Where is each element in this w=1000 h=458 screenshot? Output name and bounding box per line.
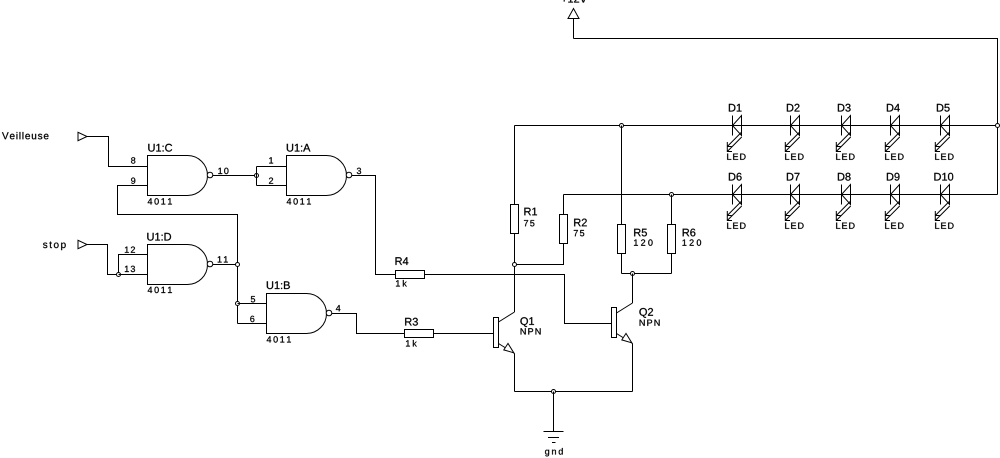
pin 5 label bbox=[251, 296, 255, 302]
pin 9 label bbox=[131, 178, 135, 184]
resistor R6 bbox=[668, 225, 676, 254]
wire Q2 collector bbox=[632, 274, 634, 304]
LED D2 bbox=[785, 116, 799, 152]
value NPN of Q1 bbox=[521, 328, 541, 334]
node Q2 collector junction bbox=[631, 272, 635, 276]
LED D5 bbox=[935, 116, 949, 152]
wire LED row 2 down to R2 bbox=[563, 195, 565, 216]
wire pin 12 and tie down to pin 13 bbox=[119, 255, 148, 275]
LED D4 bbox=[885, 116, 899, 152]
wire Veilleuse to U1:C pin 8 bbox=[87, 137, 148, 167]
pin 3 label bbox=[357, 168, 361, 174]
label D2 bbox=[787, 104, 800, 112]
node ground junction bbox=[552, 390, 556, 394]
node R5 top junction bbox=[620, 124, 624, 128]
node U1:A input tie junction bbox=[255, 174, 259, 178]
wire LED row 2 down to R6 bbox=[671, 195, 673, 226]
value 75 of R2 bbox=[574, 230, 584, 236]
resistor R5 bbox=[618, 225, 626, 254]
value label LED of D5 bbox=[935, 154, 953, 160]
LED D8 bbox=[836, 185, 850, 221]
value label 4011 of U1:A bbox=[287, 198, 311, 204]
value label LED of D4 bbox=[885, 154, 903, 160]
value label LED of D6 bbox=[727, 223, 745, 229]
node top-right rail junction bbox=[996, 124, 1000, 128]
wire R5-R6 bottom bus bbox=[622, 273, 672, 275]
value 75 of R1 bbox=[524, 220, 534, 226]
gate U1:A body (4011 NAND) bbox=[287, 156, 347, 196]
wire top rail down to R5 bbox=[621, 126, 623, 226]
gate U1:C output bubble bbox=[207, 172, 213, 178]
node stop input label bbox=[43, 242, 66, 251]
wire R5 bottom bbox=[621, 254, 623, 274]
wire R3 to Q1 base bbox=[434, 333, 494, 335]
value 1k of R3 bbox=[406, 340, 417, 347]
gate U1:D body (4011 NAND) bbox=[148, 245, 208, 285]
wire power terminal stem bbox=[573, 19, 575, 39]
node pin 11 junction bbox=[236, 263, 240, 267]
label D6 bbox=[729, 173, 742, 181]
wire top LED row bbox=[515, 125, 998, 127]
Veilleuse input terminal symbol bbox=[78, 132, 87, 140]
label D1 bbox=[729, 104, 742, 112]
LED D10 bbox=[935, 185, 949, 221]
node Veilleuse input label bbox=[2, 132, 49, 139]
wire R4 to Q2 base bbox=[425, 275, 612, 324]
wire power rail top and right bbox=[574, 39, 998, 195]
label R1 bbox=[524, 208, 537, 216]
value label LED of D2 bbox=[785, 154, 803, 160]
wire Q2 emitter down bbox=[632, 344, 634, 392]
value label LED of D8 bbox=[836, 223, 854, 229]
resistor R3 bbox=[405, 330, 434, 338]
value label LED of D7 bbox=[785, 223, 803, 229]
wire R1 bottom to Q1 collector bbox=[514, 234, 516, 312]
wire emitter bus bbox=[515, 391, 633, 393]
ground label gnd bbox=[545, 448, 563, 456]
node R6 top junction bbox=[670, 193, 674, 197]
gate U1:C body (4011 NAND) bbox=[148, 156, 208, 196]
wire stop to pin 13 junction bbox=[87, 245, 119, 275]
wire U1:C output pin 10 to U1:A inputs bbox=[213, 175, 257, 177]
pin 10 label bbox=[218, 168, 228, 174]
LED D6 bbox=[727, 185, 741, 221]
label R2 bbox=[574, 219, 587, 227]
label D4 bbox=[887, 104, 900, 112]
value NPN of Q2 bbox=[640, 320, 660, 326]
LED D1 bbox=[727, 116, 741, 152]
wire bottom LED row bbox=[564, 194, 998, 196]
pin 11 label bbox=[218, 256, 228, 262]
value 120 of R6 bbox=[683, 239, 702, 245]
wire U1:B output to R3 bbox=[332, 314, 405, 334]
power terminal +12V label (cut off at top) bbox=[562, 0, 587, 3]
wire pin 2 bbox=[257, 185, 287, 187]
value label 4011 of U1:C bbox=[148, 198, 172, 204]
gate U1:B body (4011 NAND) bbox=[267, 294, 327, 334]
label U1:C bbox=[148, 144, 172, 152]
LED D7 bbox=[785, 185, 799, 221]
pin 2 label bbox=[269, 178, 273, 184]
pin 12 label bbox=[125, 247, 135, 253]
label D10 bbox=[934, 173, 953, 181]
gate U1:D output bubble bbox=[207, 261, 213, 267]
node pin 13 junction bbox=[117, 273, 121, 277]
transistor Q2 bbox=[612, 303, 633, 344]
label Q2 bbox=[639, 308, 653, 318]
label D3 bbox=[838, 104, 851, 112]
value label 4011 of U1:D bbox=[148, 287, 172, 293]
wire U1:A output to R4 bbox=[352, 176, 396, 275]
label R5 bbox=[634, 229, 647, 237]
value label LED of D3 bbox=[836, 154, 854, 160]
wire pin 1 bbox=[257, 166, 287, 168]
pin 13 label bbox=[125, 266, 135, 272]
LED D9 bbox=[885, 185, 899, 221]
label U1:B bbox=[267, 281, 290, 289]
wire R2 bottom to collector node bbox=[515, 244, 564, 265]
pin 4 label bbox=[336, 305, 341, 311]
value label LED of D9 bbox=[885, 223, 903, 229]
wire pin 6 bbox=[238, 323, 267, 325]
wire down to ground bbox=[553, 392, 555, 432]
LED D3 bbox=[836, 116, 850, 152]
wire U1:D output pin 11 bbox=[213, 264, 238, 266]
pin 8 label bbox=[131, 157, 135, 163]
value label LED of D10 bbox=[935, 223, 953, 229]
gate U1:A output bubble bbox=[346, 172, 352, 178]
wire Q1 emitter down bbox=[514, 354, 516, 392]
value 120 of R5 bbox=[634, 239, 653, 245]
ground symbol bbox=[544, 432, 564, 443]
label R3 bbox=[405, 318, 418, 326]
wire top rail down to R1 bbox=[514, 126, 516, 206]
resistor R4 bbox=[396, 271, 425, 279]
value label 4011 of U1:B bbox=[267, 336, 291, 342]
wire pin 5 bbox=[238, 303, 267, 305]
stop input terminal symbol bbox=[78, 240, 87, 248]
label D7 bbox=[787, 173, 800, 181]
transistor Q1 bbox=[494, 312, 515, 354]
resistor R2 bbox=[560, 215, 568, 244]
label U1:A bbox=[287, 144, 311, 152]
label D8 bbox=[838, 173, 851, 181]
wire R6 bottom bbox=[671, 254, 673, 274]
pin 6 label bbox=[250, 316, 254, 322]
node pin 5 junction bbox=[236, 302, 240, 306]
power terminal arrow symbol bbox=[568, 9, 579, 19]
wire U1:A input tie vertical bbox=[256, 167, 258, 186]
value 1k of R4 bbox=[396, 280, 407, 287]
label U1:D bbox=[147, 233, 171, 241]
label R6 bbox=[683, 229, 696, 237]
label R4 bbox=[396, 257, 409, 265]
value label LED of D1 bbox=[727, 154, 745, 160]
resistor R1 bbox=[511, 205, 519, 234]
node R1/R2/Q1-collector junction bbox=[513, 263, 517, 267]
label D5 bbox=[937, 104, 950, 112]
pin 1 label bbox=[269, 157, 273, 163]
gate U1:B output bubble bbox=[326, 310, 332, 316]
label D9 bbox=[887, 173, 900, 181]
label Q1 bbox=[520, 317, 534, 327]
wire pin 13 bbox=[119, 274, 148, 276]
pin 9 wire feedback from node 11 bbox=[118, 186, 238, 324]
